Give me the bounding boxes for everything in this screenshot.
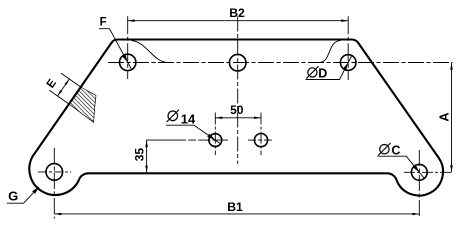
svg-text:G: G [8, 189, 18, 204]
svg-text:50: 50 [230, 103, 244, 117]
svg-text:B2: B2 [229, 6, 245, 20]
svg-text:B1: B1 [227, 200, 243, 214]
svg-text:C: C [391, 144, 400, 158]
svg-text:D: D [318, 67, 327, 81]
svg-text:A: A [436, 112, 451, 122]
svg-text:35: 35 [133, 148, 147, 162]
svg-text:F: F [100, 16, 107, 28]
svg-text:14: 14 [181, 111, 196, 126]
